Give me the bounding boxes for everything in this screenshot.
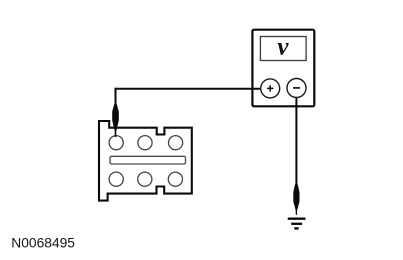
svg-text:N0068495: N0068495 xyxy=(11,235,75,250)
connector pin 3 (top-right cavity) xyxy=(169,136,183,150)
ground symbol bar 3 xyxy=(294,227,298,229)
ground symbol bar 2 xyxy=(291,223,302,225)
wire from positive terminal to probe (horizontal) xyxy=(116,88,262,90)
wire vertical drop to probe arrow xyxy=(115,88,117,107)
svg-text:v: v xyxy=(277,33,289,60)
voltmeter display window xyxy=(260,37,306,61)
connector center keying slot xyxy=(110,156,186,164)
voltmeter U1 body xyxy=(252,30,314,107)
minus sign xyxy=(293,87,300,89)
connector pin 1 (top-left cavity) xyxy=(109,136,123,150)
connector C1 outline xyxy=(99,121,192,201)
plus sign xyxy=(267,85,273,91)
positive terminal circle xyxy=(261,79,280,98)
probe arrow into connector pin 1 xyxy=(112,104,119,137)
connector pin 6 (bottom-right cavity) xyxy=(168,172,182,186)
ground symbol bar 1 xyxy=(288,218,306,220)
wire from negative terminal down to ground xyxy=(295,98,297,187)
connector pin 4 (bottom-left cavity) xyxy=(109,172,123,186)
ground probe arrow xyxy=(293,184,299,215)
connector pin 2 (top-middle cavity) xyxy=(138,136,152,150)
connector pin 5 (bottom-middle cavity) xyxy=(138,172,152,186)
negative terminal circle xyxy=(287,79,306,98)
